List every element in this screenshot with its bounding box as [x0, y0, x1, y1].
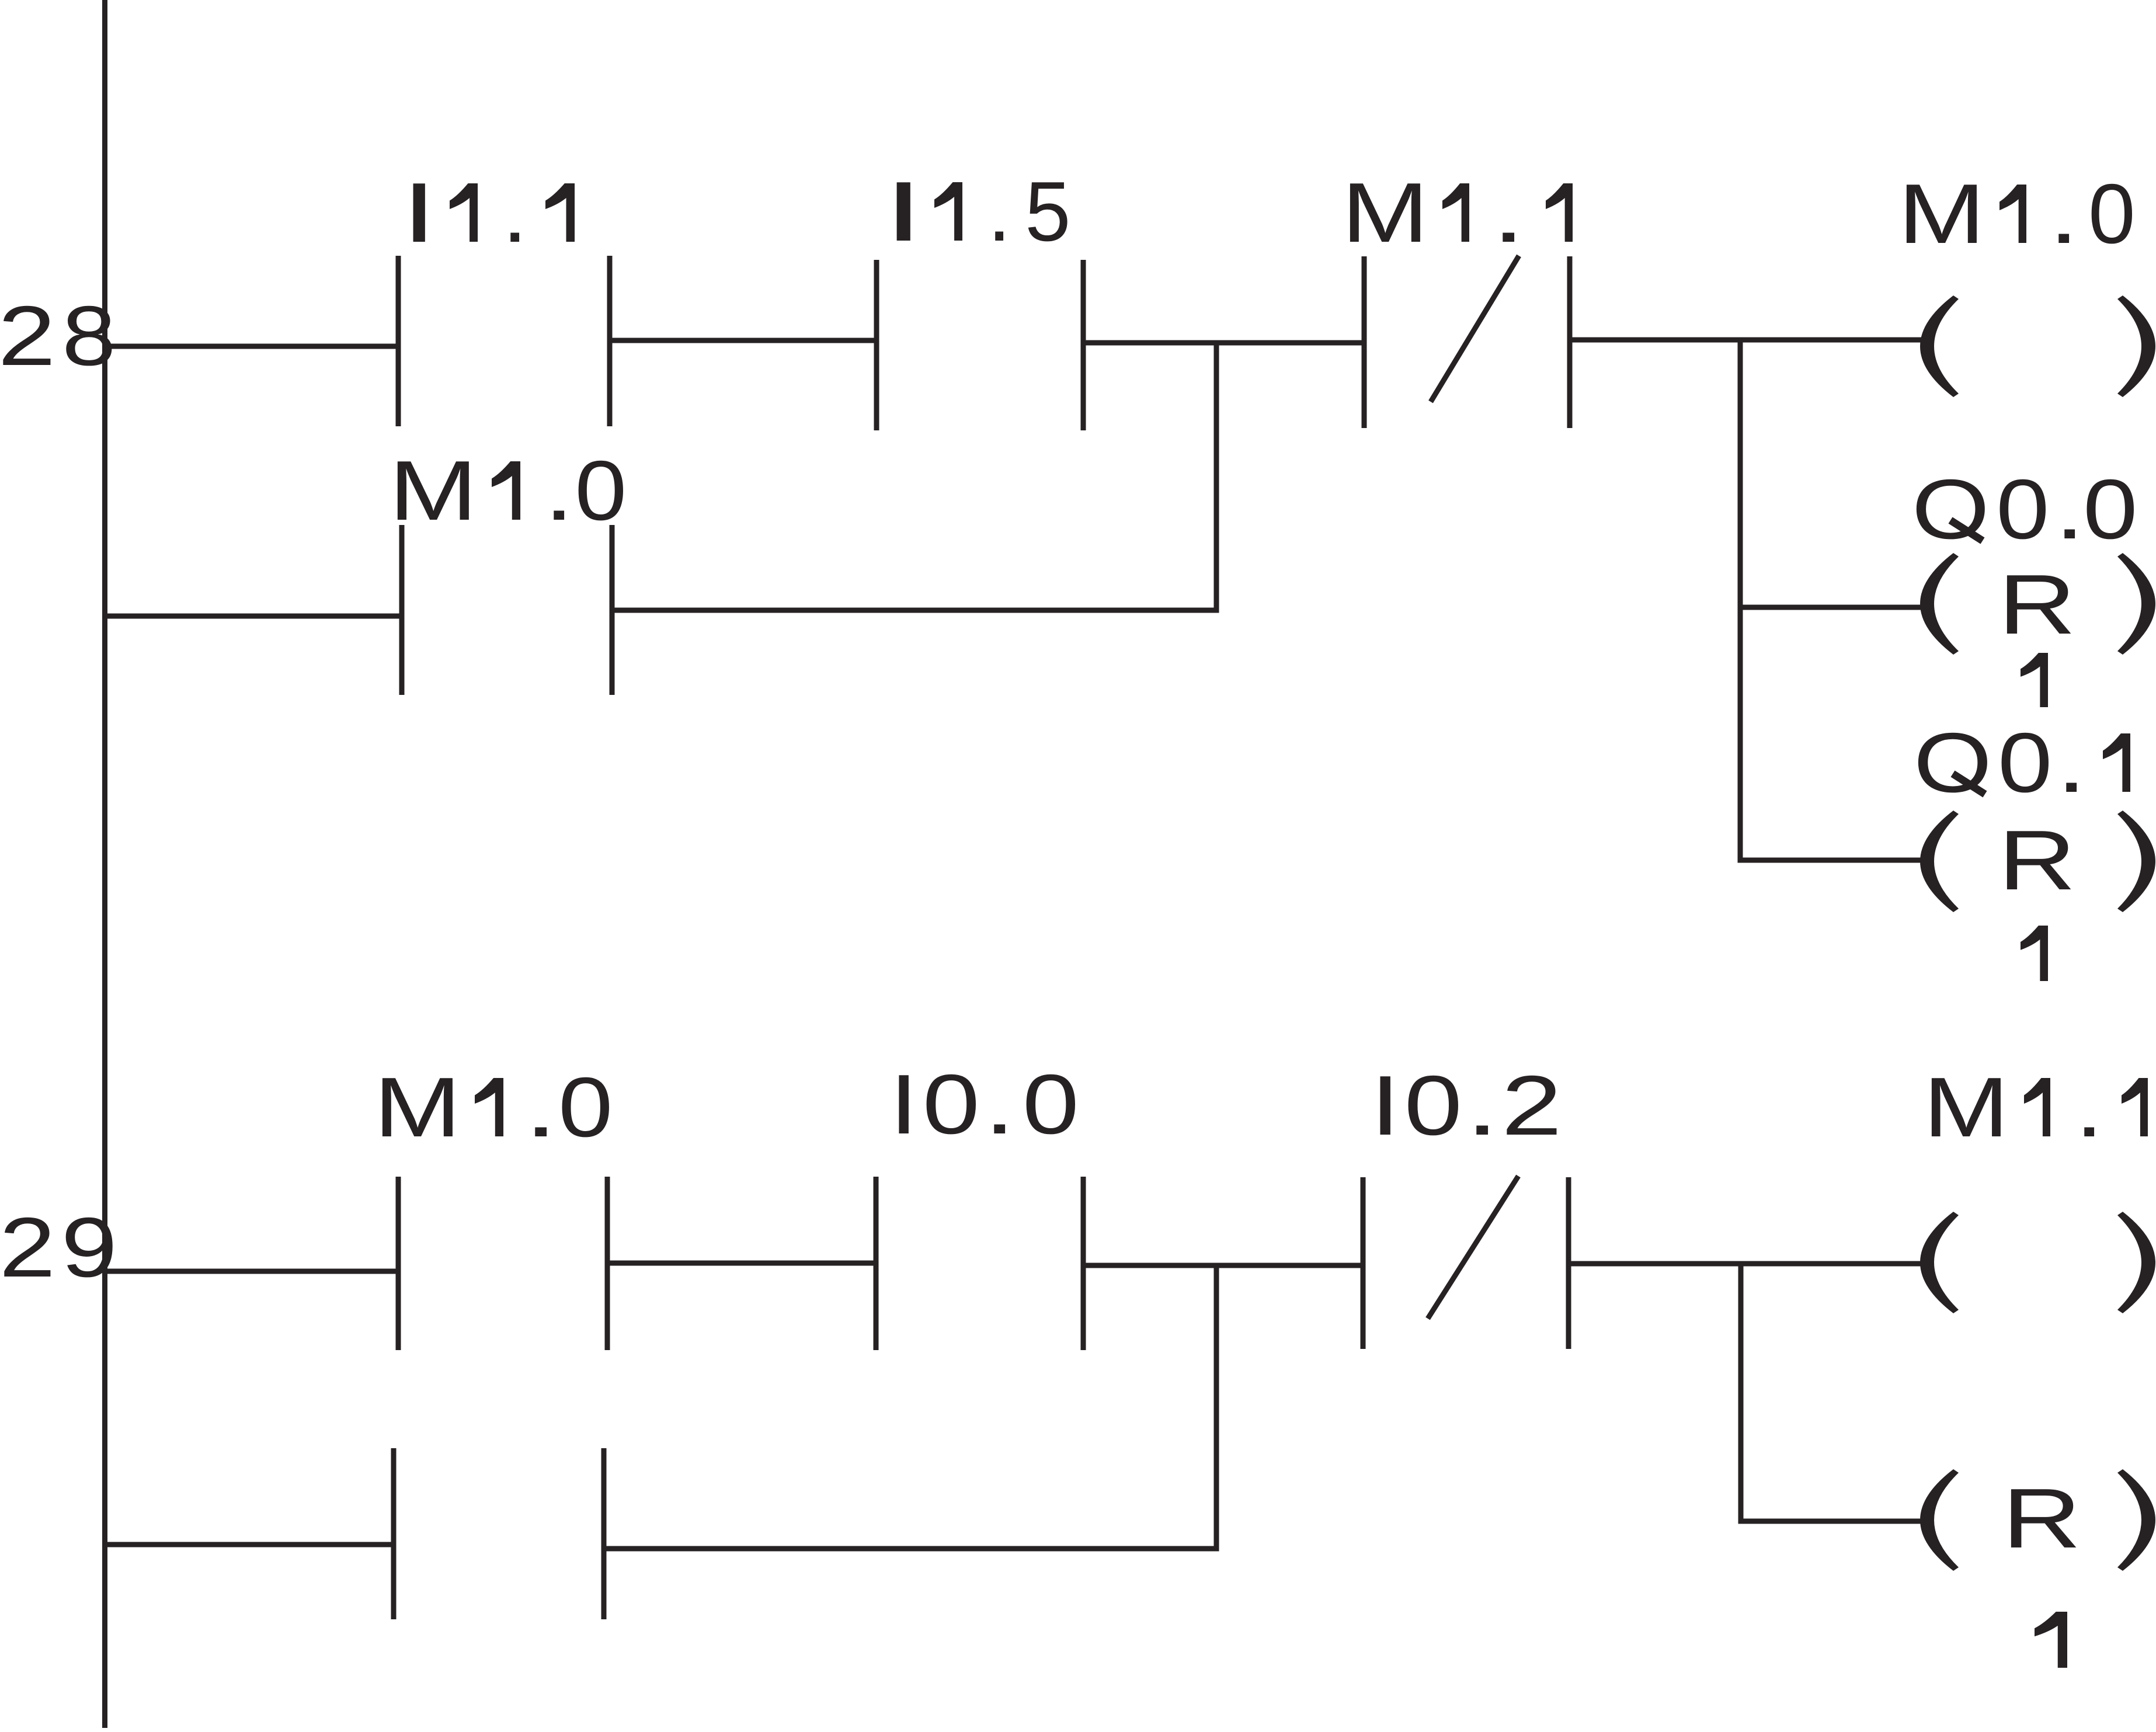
svg-text:.: .: [1465, 1058, 1499, 1153]
node: junction down to parallel branch of rung 29: [1214, 1265, 1219, 1551]
wire I1.5 to contact M1.1: [1083, 340, 1364, 346]
svg-text:O: O: [1914, 715, 1992, 810]
svg-text:M: M: [1923, 1060, 2009, 1155]
wire parallel contact M1.0 to junction: [612, 608, 1219, 613]
contact M1.1 (normally closed): [1364, 256, 1570, 428]
svg-text:.: .: [2049, 167, 2079, 261]
svg-text:5: 5: [1025, 165, 1070, 259]
svg-text:I: I: [1370, 1059, 1400, 1153]
label Q0.1: [1914, 715, 2130, 810]
svg-text:.: .: [2056, 716, 2087, 810]
wire to reset coil of rung 29: [1738, 1519, 1923, 1524]
contact I0.2 (normally closed): [1363, 1176, 1569, 1349]
label M1.1 (output coil rung 29): [1923, 1060, 2148, 1155]
svg-text:0: 0: [1023, 1057, 1079, 1152]
value 1 below coil Q0.1: [2021, 926, 2048, 981]
svg-text:I: I: [889, 1058, 918, 1152]
svg-text:I: I: [402, 166, 437, 260]
svg-text:M: M: [1898, 166, 1985, 261]
wire I0.0 to contact I0.2: [1083, 1263, 1363, 1268]
rung number 29: [0, 1199, 117, 1295]
node: junction down to reset coil branch of rung 28: [1738, 340, 1743, 862]
svg-text:0: 0: [1996, 462, 2049, 557]
coil Q0.0 (reset): [1920, 553, 2155, 655]
svg-text:M: M: [1341, 165, 1428, 260]
svg-text:.: .: [1491, 165, 1525, 260]
svg-text:0: 0: [2088, 166, 2136, 261]
wire to reset coil Q0.1: [1738, 858, 1923, 863]
contact I1.5 (normally open): [877, 260, 1083, 430]
svg-text:0: 0: [575, 444, 627, 538]
wire parallel branch rung 28 (rail to contact M1.0): [102, 614, 402, 619]
node: junction down to parallel branch of rung 28: [1214, 343, 1219, 613]
label I0.2: [1370, 1058, 1562, 1153]
label M1.0 (output coil rung 28): [1898, 166, 2135, 261]
svg-text:R: R: [1998, 558, 2076, 652]
svg-text:.: .: [987, 164, 1011, 259]
svg-text:.: .: [524, 1060, 558, 1154]
coil Q0.1 (reset): [1920, 811, 2155, 912]
svg-text:8: 8: [62, 289, 116, 384]
wire I1.1 to I1.5: [610, 338, 877, 343]
label Q0.0: [1912, 461, 2138, 557]
label M1.0 (contact rung 29): [374, 1059, 613, 1154]
svg-text:.: .: [502, 165, 527, 260]
svg-text:0: 0: [1404, 1059, 1462, 1153]
svg-text:.: .: [544, 444, 574, 538]
wire rung 29: rail to contact M1.0: [102, 1269, 398, 1274]
svg-text:0: 0: [558, 1060, 613, 1155]
svg-text:0: 0: [2083, 462, 2138, 557]
contact I1.1 (normally open): [398, 256, 610, 426]
svg-text:I: I: [884, 165, 924, 259]
svg-text:9: 9: [61, 1199, 117, 1295]
wire rung 28: rail to contact I1.1: [102, 344, 398, 349]
svg-text:.: .: [983, 1057, 1016, 1152]
wire parallel branch rung 29 (rail to unnamed contact): [102, 1542, 394, 1547]
svg-text:.: .: [2075, 1060, 2103, 1155]
svg-text:2: 2: [0, 1200, 55, 1295]
value 1 below reset coil rung 29: [2035, 1612, 2067, 1668]
contact M1.0 (parallel branch rung 28): [402, 525, 612, 695]
svg-text:2: 2: [0, 289, 55, 384]
label I1.5: [884, 164, 1071, 259]
wire I0.2 to output coil M1.1: [1569, 1261, 1923, 1267]
svg-text:M: M: [389, 443, 478, 538]
wire parallel contact to junction (rung 29): [604, 1546, 1219, 1552]
wire M1.1 to output coil M1.0: [1570, 338, 1922, 343]
value 1 below coil Q0.0: [2021, 653, 2048, 707]
wire to reset coil Q0.0: [1738, 605, 1923, 610]
svg-text:.: .: [2054, 462, 2085, 557]
letter R of reset coil Q0.1: [1998, 813, 2076, 908]
label M1.1 (NC contact rung 28): [1341, 165, 1573, 260]
svg-text:2: 2: [1501, 1059, 1562, 1153]
letter R of reset coil Q0.0: [1998, 558, 2076, 652]
contact unnamed (parallel branch rung 29): [394, 1448, 604, 1619]
svg-text:R: R: [1998, 813, 2076, 908]
svg-text:O: O: [1912, 461, 1990, 557]
coil M1.0 (output coil rung 28): [1920, 295, 2155, 397]
wire M1.0 to I0.0: [607, 1261, 876, 1266]
label I0.0: [889, 1057, 1079, 1152]
left power rail: [102, 0, 107, 1728]
svg-text:0: 0: [1998, 716, 2053, 811]
svg-text:0: 0: [923, 1058, 980, 1152]
contact I0.0 (normally open): [876, 1177, 1083, 1350]
contact M1.0 (rung 29, normally open): [398, 1177, 607, 1350]
rung number 28: [0, 289, 116, 384]
label I1.1: [402, 165, 575, 260]
coil M1.1 (output coil rung 29): [1920, 1212, 2155, 1313]
svg-text:R: R: [2002, 1471, 2082, 1566]
coil reset M1.1 value 1 (rung 29): [1920, 1469, 2155, 1571]
label M1.0 (parallel contact rung 28): [389, 443, 627, 538]
letter R of reset coil M1.1: [2002, 1471, 2082, 1566]
svg-text:M: M: [374, 1059, 461, 1154]
node: junction down to reset coil branch of rung 29: [1738, 1264, 1744, 1524]
